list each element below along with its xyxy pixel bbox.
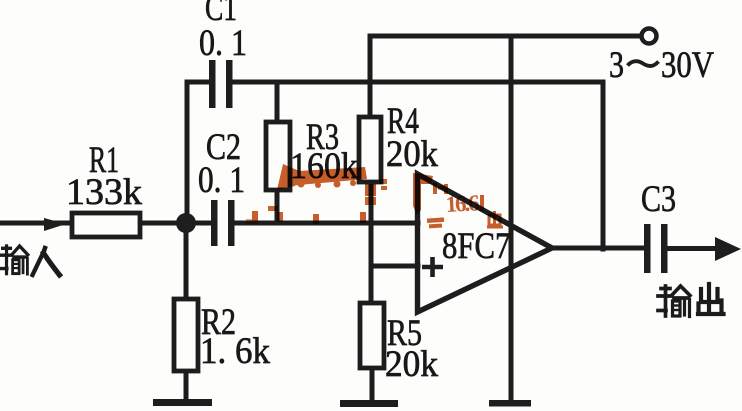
svg-text:C3: C3 <box>641 179 676 220</box>
svg-text:16.6: 16.6 <box>445 190 480 217</box>
svg-text:20k: 20k <box>386 133 438 174</box>
svg-text:0. 1: 0. 1 <box>199 23 247 64</box>
svg-text:0. 1: 0. 1 <box>198 160 245 201</box>
svg-text:3: 3 <box>609 45 624 86</box>
svg-text:20k: 20k <box>385 343 439 384</box>
svg-text:1. 6k: 1. 6k <box>200 330 270 371</box>
svg-text:8FC7: 8FC7 <box>442 226 510 266</box>
svg-text:133k: 133k <box>66 172 142 212</box>
svg-text:30V: 30V <box>661 45 714 85</box>
